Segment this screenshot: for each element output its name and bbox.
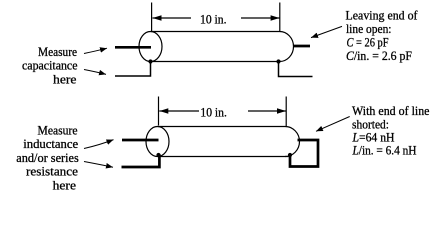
coax line 2: body bottom wire — [158, 156, 289, 158]
junction dot: shield to wire (top right) — [276, 59, 280, 63]
shorting strap (bottom figure right) — [290, 140, 318, 167]
svg-text:capacitance: capacitance — [22, 57, 78, 72]
coax line 2: left end-cap ellipse — [146, 127, 169, 157]
annotation arrow to shield lead (bottom left) — [84, 162, 113, 168]
annotation arrow to center-conductor lead (bottom left) — [84, 140, 114, 149]
svg-text:here: here — [53, 178, 77, 193]
annotation arrow to open stub (top right) — [311, 26, 342, 37]
coax line 1: right end-cap arc — [280, 32, 294, 62]
center-conductor lead (bottom figure) — [122, 139, 159, 142]
dimension arrow left (bottom figure) — [159, 110, 199, 112]
junction dot: shield lead to shield (bottom left) — [156, 153, 160, 157]
svg-text:inductance: inductance — [23, 136, 78, 151]
dimension arrow right (bottom figure) — [248, 110, 286, 112]
coax line 1: body bottom wire — [151, 61, 280, 63]
extension line right (top figure) — [279, 3, 281, 32]
coax line 2: right end-cap arc — [285, 127, 300, 157]
center-conductor lead (top figure) — [115, 46, 151, 49]
extension line left (bottom figure) — [158, 97, 160, 126]
shield lead wire (top figure lower left) — [115, 63, 151, 77]
extension line left (top figure) — [151, 3, 153, 32]
note: with end of line shorted (bottom right) — [352, 103, 430, 157]
svg-text:10 in.: 10 in. — [200, 105, 227, 120]
note: leaving end of line open (top right) — [346, 7, 419, 63]
coax line 1: body top wire — [151, 31, 280, 33]
svg-text:and/or series: and/or series — [16, 150, 79, 165]
annotation arrow to center-conductor lead (top left) — [84, 48, 107, 53]
junction dot: shorting strap to shield (bottom right) — [288, 153, 292, 157]
shield lead wire (bottom figure lower left) — [122, 155, 160, 168]
dimension arrow left (top figure) — [153, 17, 192, 19]
dimension arrow right (top figure) — [241, 17, 280, 19]
svg-text:10 in.: 10 in. — [200, 11, 227, 26]
coax line 1: left end-cap ellipse — [139, 32, 162, 62]
svg-text:Measure: Measure — [38, 122, 78, 137]
svg-text:resistance: resistance — [26, 164, 78, 179]
annotation arrow to shorting strap (bottom right) — [316, 117, 350, 132]
junction dot: shield lead to shield (top left) — [148, 59, 152, 63]
svg-text:C/in. = 2.6 pF: C/in. = 2.6 pF — [346, 48, 412, 63]
label: Measure inductance and/or series resistance here (bottom left) — [16, 122, 79, 192]
open center-conductor stub (top figure right) — [293, 45, 310, 48]
svg-text:L/in. = 6.4 nH: L/in. = 6.4 nH — [352, 143, 417, 158]
annotation arrow to shield wire (top left) — [84, 70, 106, 75]
coax line 2: body top wire — [158, 126, 286, 128]
extension line right (bottom figure) — [285, 97, 287, 127]
svg-text:here: here — [53, 72, 77, 87]
label: Measure capacitance here (top left) — [22, 44, 78, 87]
shield wire (top figure lower right) — [279, 62, 313, 77]
